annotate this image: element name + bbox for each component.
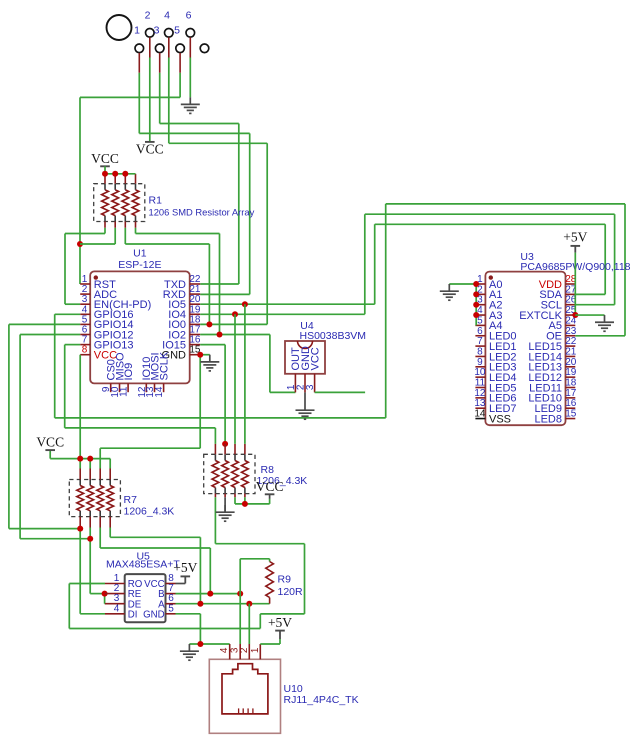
junction IO0/R1.3 [206, 321, 212, 327]
wire VCC rail above R1 [105, 173, 136, 175]
R1 pin stubs [105, 174, 136, 228]
U3 pin 11 (LED5) [475, 378, 517, 395]
U4 pin 2 (GND) [296, 346, 312, 392]
wire R7.4 to A line [110, 528, 200, 604]
U10 pin 3 [230, 644, 241, 659]
wire R7.2 to RE/DE [90, 528, 105, 604]
wire A to RJ11 pin2 [248, 604, 250, 644]
wire R7.3 to B line [100, 528, 210, 594]
wire IO2 row to U4 OUT [200, 335, 295, 393]
wire U4 VCC pin [315, 391, 366, 393]
junction B/R7.3 [207, 591, 213, 597]
U3 pin 27 (SDA) [539, 284, 576, 301]
power symbol +5V (U10) [268, 615, 292, 639]
wire R8.3/R8.4 to VCC [235, 497, 270, 504]
wire IO4 row to SCL [200, 214, 614, 314]
junction RST/R1.2 [77, 241, 83, 247]
op IC U1 ESP-12E body [90, 271, 190, 383]
svg-text:1206 SMD Resistor Array: 1206 SMD Resistor Array [149, 207, 255, 218]
svg-text:2: 2 [239, 647, 250, 653]
svg-text:15: 15 [565, 409, 577, 420]
U1 pin 18 (IO0) [168, 314, 201, 331]
resistor R8 element 3 [232, 461, 239, 488]
resistor R1 element 3 [122, 190, 129, 216]
U3 pin 17 (LED10) [528, 388, 576, 405]
U1 pin 17 (IO2) [168, 325, 201, 342]
R8 pin stubs [215, 444, 245, 497]
svg-text:2: 2 [145, 10, 151, 22]
wire GPIO16 to OE net [55, 204, 625, 418]
wire U1 GND net [100, 355, 210, 469]
svg-text:8: 8 [82, 345, 88, 356]
U1 pin 10 (MISO) [110, 352, 126, 398]
connector U10 RJ11 outer box [209, 659, 280, 733]
U3 pin 24 (A5) [549, 315, 577, 332]
wire IO4 drop to R8.3 [234, 314, 236, 444]
svg-text:MAX485ESA+T: MAX485ESA+T [106, 559, 180, 571]
wire J1 pin1 to RXD [139, 73, 249, 295]
resistor R8 element 4 [242, 461, 249, 488]
svg-text:5: 5 [174, 25, 180, 37]
U5 pin 8 (VCC) [144, 573, 175, 590]
U5 pin 7 (B) [158, 583, 175, 600]
U1 pin 4 (GPIO16) [80, 304, 133, 321]
U3 pin 14 (VSS) [474, 409, 511, 426]
U1 pin 21 (RXD) [163, 284, 201, 301]
U3 pin 12 (LED6) [474, 388, 516, 405]
resistor R9 [269, 559, 271, 604]
U1 pin 15 (GND) [162, 345, 201, 362]
junction R7.2/GPIO12 [87, 536, 93, 542]
U1 pin 3 (EN(CH-PD)) [80, 294, 151, 311]
svg-text:VCC: VCC [136, 141, 164, 156]
wire R8.2 to ground [224, 497, 226, 511]
wire EXTCLK to ground [575, 314, 604, 316]
svg-text:HS0038B3VM: HS0038B3VM [300, 330, 367, 342]
resistor array R8 dashed outline [204, 454, 255, 493]
svg-text:10: 10 [474, 367, 486, 378]
U1 pin 12 (IO10) [137, 357, 153, 398]
svg-text:IO9: IO9 [123, 363, 135, 381]
svg-text:21: 21 [565, 346, 577, 357]
resistor array R7 bodies [80, 480, 110, 517]
wire J1 pin4 to IO0 net [169, 58, 267, 325]
connector J1 pads [135, 29, 209, 53]
svg-text:3: 3 [154, 25, 160, 37]
svg-text:12: 12 [474, 388, 486, 399]
wire U5 A row [176, 603, 270, 605]
U3 pin 16 (LED9) [534, 398, 576, 415]
junctions U3 A0-A3 [473, 281, 479, 287]
svg-text:18: 18 [565, 378, 577, 389]
svg-text:RJ11_4P4C_TK: RJ11_4P4C_TK [284, 694, 359, 706]
wire GPIO14 to R7.1 [9, 324, 80, 528]
ground U5 GND [180, 644, 199, 660]
resistor R7 element 4 [107, 486, 114, 511]
wire J1 pin3 to TXD [160, 73, 239, 284]
svg-text:120R: 120R [278, 586, 304, 598]
U3 pin 5 (A4) [475, 315, 502, 332]
U3 pin 18 (LED11) [529, 378, 577, 395]
resistor R8 element 2 [222, 461, 229, 488]
junctions VCC rail [77, 456, 83, 462]
svg-text:4: 4 [219, 647, 230, 653]
U1 pin 6 (GPIO12) [80, 325, 133, 342]
svg-text:6: 6 [477, 326, 483, 337]
wire U5 B row [176, 593, 241, 595]
svg-text:5: 5 [168, 603, 174, 614]
power symbol +5V (U5) [173, 560, 197, 584]
wire IO5 row to SDA [200, 224, 605, 304]
connector J1 pin numbers [134, 10, 192, 37]
wire IO0 row [200, 323, 267, 325]
wire R1.3 to IO0 net [125, 228, 209, 325]
resistor array R1 dashed outline [94, 184, 145, 222]
svg-text:1206_4.3K: 1206_4.3K [124, 506, 175, 518]
power symbol VCC (J1 pin2) [136, 141, 164, 156]
U1 pin 20 (IO5) [168, 294, 201, 311]
svg-text:R8: R8 [261, 464, 275, 476]
U10 pin 1 [250, 644, 261, 659]
svg-text:8: 8 [477, 346, 483, 357]
junction B/R9/RJ [237, 591, 243, 597]
U4 pin 3 (VCC) [305, 347, 321, 392]
U3 pin 3 (A2) [475, 295, 502, 312]
wire J1 pin2 to VCC [149, 58, 151, 142]
U3 pin 19 (LED12) [528, 367, 576, 384]
U3 pin 1 (A0) [475, 274, 502, 291]
U3 pin 21 (LED14) [528, 346, 576, 363]
svg-text:9: 9 [477, 357, 483, 368]
U1 pin 19 (IO4) [168, 304, 201, 321]
svg-text:+5V: +5V [173, 560, 197, 575]
U1 pin 7 (GPIO13) [80, 335, 133, 352]
wire R1.2 to RST net [80, 228, 115, 244]
U3 pin 4 (A3) [475, 305, 502, 322]
svg-text:VCC: VCC [91, 151, 119, 166]
junction U1 GND [197, 352, 203, 358]
svg-text:SCLK: SCLK [158, 351, 170, 380]
wire GPIO12 to R7.2 [20, 335, 90, 539]
resistor R1 element 4 [132, 190, 139, 216]
ground U4 [296, 403, 315, 419]
R7 pin stubs [80, 469, 110, 528]
wire J1 pin6 to ground [189, 58, 191, 98]
power symbol VCC (R8 pullup) [256, 479, 284, 495]
svg-text:17: 17 [565, 388, 577, 399]
svg-text:7: 7 [477, 336, 483, 347]
junction A/RJ [246, 601, 252, 607]
U1 pin 5 (GPIO14) [80, 314, 133, 331]
junction IO5/R8.4 [242, 301, 248, 307]
U3 pin1 marker [489, 275, 493, 279]
junction A/R7.4 [197, 601, 203, 607]
ground R8.2 [216, 505, 235, 521]
svg-text:19: 19 [565, 367, 577, 378]
wire B to RJ11 pin3 [239, 594, 241, 644]
U4 pin 1 (OUT) [286, 347, 302, 392]
resistor R1 element 2 [112, 190, 119, 216]
power symbol +5V (U3) [563, 229, 587, 252]
U1 pin 14 (SCLK) [154, 351, 170, 398]
resistor R7 element 3 [97, 486, 104, 511]
IC U3 PCA9685 body [485, 272, 565, 426]
power symbol VCC (R1 top) [91, 151, 119, 167]
svg-text:VCC: VCC [309, 347, 321, 370]
svg-text:13: 13 [474, 398, 486, 409]
svg-text:11: 11 [119, 386, 130, 397]
U3 pin 28 (VDD) [539, 274, 577, 291]
power symbol VCC (R7 rail) [36, 435, 64, 451]
U3 pin 26 (SCL) [541, 295, 577, 312]
svg-text:11: 11 [475, 378, 486, 389]
svg-text:VCC: VCC [256, 479, 284, 494]
resistor R7 element 1 [77, 486, 84, 511]
svg-text:16: 16 [565, 398, 577, 409]
U10 pin 2 [239, 644, 250, 659]
resistor array R1 bodies [105, 184, 136, 222]
IC U5 MAX485 body [125, 574, 166, 622]
svg-text:4: 4 [164, 10, 170, 22]
junction R7.1/GPIO14 [77, 526, 83, 532]
U3 pin 6 (LED0) [475, 326, 516, 343]
U3 pin 25 (EXTCLK) [519, 305, 577, 322]
svg-text:23: 23 [565, 326, 577, 337]
junction IO2/R1.4 [217, 332, 223, 338]
U1 pin 11 (IO9) [119, 363, 135, 397]
U5 pin 4 (DI) [105, 603, 137, 620]
resistor R8 element 1 [212, 461, 219, 488]
U5 pin 2 (RE) [105, 583, 142, 600]
svg-text:R7: R7 [124, 494, 138, 506]
U3 pin 9 (LED3) [475, 357, 516, 374]
wire R8.1 to RO net [69, 497, 304, 628]
junctions R1 top rail [102, 171, 108, 177]
U1 pin1 marker [94, 275, 98, 279]
svg-text:VSS: VSS [489, 413, 511, 425]
ground U3 EXTCLK [595, 315, 614, 331]
ground J1 pin6 [181, 97, 200, 113]
wire R9 top to B [240, 559, 269, 594]
svg-text:+5V: +5V [268, 615, 292, 630]
junction GND/RJ [197, 641, 203, 647]
svg-text:+5V: +5V [563, 229, 587, 244]
U3 pin 20 (LED13) [528, 357, 576, 374]
svg-text:1: 1 [250, 647, 261, 653]
svg-text:U1: U1 [133, 248, 147, 260]
U1 pin 22 (TXD) [164, 274, 201, 291]
wire U3 A0-A4 tie to ground [449, 284, 476, 325]
U1 pin 2 (ADC) [80, 284, 117, 301]
U10 jack contacts [239, 708, 253, 714]
U5 pin 6 (A) [158, 593, 175, 610]
wire U5 GND net [176, 614, 230, 644]
junction IO4/R8.3 [232, 311, 238, 317]
resistor array R7 dashed outline [69, 480, 120, 517]
wire R1.1 to EN(CH-PD) [65, 228, 105, 304]
svg-text:4: 4 [114, 603, 120, 614]
wire R7.1 to DI [80, 528, 105, 614]
U3 pin 7 (LED1) [475, 336, 516, 353]
U3 pin 2 (A1) [475, 284, 502, 301]
svg-text:VCC: VCC [36, 435, 64, 450]
junction RE/DE tie [102, 591, 108, 597]
U3 pin 22 (LED15) [528, 336, 576, 353]
svg-text:14: 14 [154, 386, 165, 398]
U1 pin 13 (MOSI) [145, 352, 161, 397]
U1 pin 9 (CS0) [101, 359, 117, 392]
connector J1 mounting circle [107, 15, 132, 40]
wire U1 VCC pin8 down to VCC rail [79, 355, 81, 459]
U5 pin 5 (GND) [143, 603, 175, 620]
resistor R1 element 1 [102, 190, 109, 216]
wire VCC rail to R7 [50, 450, 110, 468]
ground U3 address [440, 284, 459, 300]
junction EXTCLK [572, 312, 578, 318]
connector U10 RJ11 jack outline [222, 664, 268, 714]
wire R1.4 to IO2 net [136, 228, 220, 335]
svg-text:ESP-12E: ESP-12E [118, 259, 161, 271]
U3 pin 10 (LED4) [474, 367, 516, 384]
U1 pin 8 (VCC) [80, 345, 117, 362]
svg-text:DI: DI [128, 609, 138, 620]
IC U4 HS0038B3VM body [285, 341, 325, 374]
connector J1 pin stubs [139, 37, 190, 72]
wire GPIO13 to R8.1 [65, 345, 216, 444]
svg-text:14: 14 [474, 409, 486, 420]
U3 pin 8 (LED2) [475, 346, 516, 363]
U3 pin 13 (LED7) [474, 398, 516, 415]
svg-text:20: 20 [565, 357, 577, 368]
wire IO15 to R8.2 [200, 345, 225, 444]
svg-text:6: 6 [186, 10, 192, 22]
svg-text:GND: GND [143, 609, 165, 620]
svg-text:R9: R9 [278, 573, 292, 585]
U5 pin 1 (RO) [105, 573, 143, 590]
U1 pin 1 (RST) [80, 274, 116, 291]
wire IO5 drop to R8.4 [244, 304, 246, 444]
U3 pin 23 (OE) [546, 326, 577, 343]
svg-text:3: 3 [305, 384, 316, 390]
svg-text:R1: R1 [149, 195, 163, 207]
ground U1 GND [200, 355, 219, 371]
U3 pin 15 (LED8) [534, 409, 576, 426]
svg-text:1: 1 [134, 25, 140, 37]
svg-text:LED8: LED8 [534, 413, 562, 425]
U10 pin 4 [219, 644, 230, 659]
wire J1 pin5 to RST net [80, 73, 180, 284]
resistor R7 element 2 [87, 486, 94, 511]
wire U4 GND pin to ground [304, 392, 306, 403]
resistor array R8 bodies [215, 454, 245, 493]
U1 pin 16 (IO15) [162, 335, 201, 352]
junction R8.2 top [222, 441, 228, 447]
U5 pin 3 (DE) [105, 593, 142, 610]
junction R8.4 bottom [242, 501, 248, 507]
svg-text:22: 22 [565, 336, 577, 347]
